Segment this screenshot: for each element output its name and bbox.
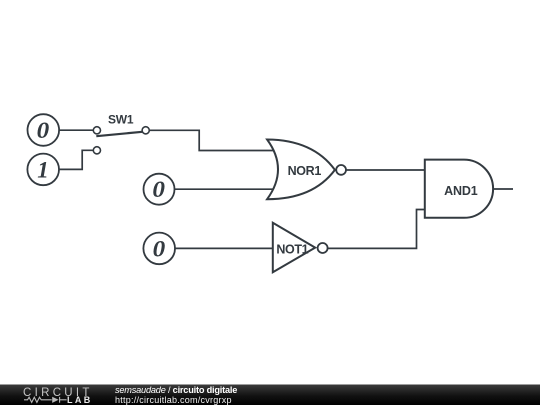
svg-text:NOT1: NOT1: [276, 242, 308, 256]
svg-text:0: 0: [37, 118, 50, 143]
svg-text:AND1: AND1: [444, 184, 478, 198]
svg-text:LAB: LAB: [67, 395, 93, 405]
svg-text:semsaudade / circuito digitale: semsaudade / circuito digitale: [115, 385, 237, 395]
svg-text:NOR1: NOR1: [288, 164, 322, 178]
svg-text:0: 0: [152, 177, 165, 202]
svg-text:1: 1: [37, 157, 49, 182]
svg-text:http://circuitlab.com/cvrgrxp: http://circuitlab.com/cvrgrxp: [115, 395, 232, 405]
svg-text:0: 0: [153, 236, 166, 261]
svg-text:SW1: SW1: [108, 113, 134, 127]
